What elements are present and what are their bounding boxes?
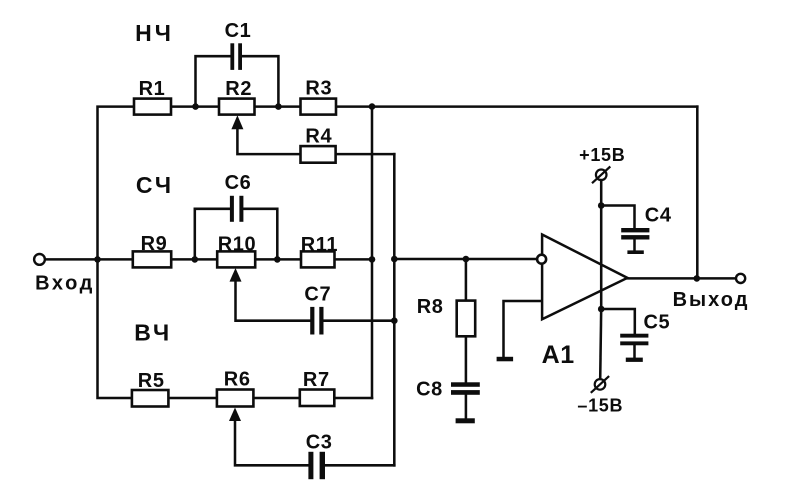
svg-text:Выход: Выход — [673, 289, 750, 311]
wire bus to R9 — [98, 258, 133, 261]
wiper arrow of R2 — [231, 115, 243, 129]
svg-text:НЧ: НЧ — [135, 20, 174, 46]
capacitor C1 — [230, 43, 234, 70]
capacitor C6 — [230, 196, 234, 222]
capacitor C4 — [621, 228, 649, 232]
ground of C5 — [626, 358, 643, 362]
wire inverting bus to op-amp — [394, 258, 536, 261]
svg-text:C7: C7 — [304, 284, 331, 306]
wire +15V terminal stem — [600, 180, 603, 205]
wire C3 to inverting bus — [325, 464, 394, 467]
junction node R1-C1 — [192, 103, 199, 110]
svg-text:ВЧ: ВЧ — [134, 320, 172, 346]
resistor R8 — [457, 301, 476, 337]
wire R10 to R11 — [255, 258, 301, 261]
junction node input bus — [94, 256, 101, 263]
resistor R9 — [133, 251, 171, 267]
wire power rail through op-amp — [600, 206, 603, 310]
wire C4 ground stub — [633, 239, 636, 250]
capacitor C8 — [451, 382, 480, 387]
wire C4 branch — [601, 206, 634, 229]
resistor R1 — [134, 99, 171, 115]
wire R1 to R2 — [171, 105, 219, 108]
wire R3 to feedback corner — [336, 105, 697, 108]
resistor R11 — [301, 251, 335, 267]
svg-text:C1: C1 — [225, 20, 252, 42]
resistor R6 (potentiometer body) — [217, 390, 254, 407]
svg-text:A1: A1 — [542, 341, 575, 369]
junction node -15V rail C5 — [598, 306, 605, 313]
wire op-amp output — [627, 277, 736, 280]
svg-text:R2: R2 — [225, 78, 252, 100]
op-amp U1 triangle — [542, 235, 627, 320]
wire R11 to output bus — [335, 258, 373, 261]
wire inverting bus vertical — [393, 154, 396, 465]
svg-text:R8: R8 — [417, 296, 444, 318]
wiper arrow of R10 — [230, 268, 242, 282]
junction node C6-R11 — [274, 256, 281, 263]
input terminal circle — [34, 254, 45, 265]
wire R9 to R10 — [171, 258, 217, 261]
wire non-inverting input to ground — [504, 301, 543, 357]
junction node C1-R3 — [275, 103, 282, 110]
svg-text:СЧ: СЧ — [136, 172, 174, 198]
svg-text:R1: R1 — [139, 78, 166, 100]
output terminal circle — [736, 274, 745, 283]
capacitor C3 — [308, 452, 313, 479]
svg-text:C8: C8 — [416, 378, 443, 400]
capacitor C7 — [310, 307, 314, 335]
wire R2 to R3 — [255, 105, 301, 108]
junction node +15V rail C4 — [598, 202, 605, 209]
junction node output feedback — [694, 275, 701, 282]
inverting input circle of op-amp — [537, 255, 546, 264]
svg-text:R3: R3 — [305, 77, 332, 99]
resistor R4 — [301, 146, 336, 163]
wire C8 to ground — [465, 395, 468, 419]
wire R5 to R6 — [168, 397, 217, 400]
junction node R9-C6 — [192, 256, 199, 263]
wire power rail to -15V — [600, 309, 601, 379]
svg-text:+15В: +15В — [579, 145, 625, 165]
svg-text:R6: R6 — [224, 369, 251, 391]
wire C7 to inverting bus — [324, 319, 395, 322]
resistor R5 — [132, 390, 169, 407]
svg-text:R11: R11 — [301, 234, 338, 256]
wire R7 to output bus — [334, 397, 372, 400]
junction node R8 tap — [463, 256, 470, 263]
svg-text:R10: R10 — [218, 234, 257, 256]
resistor R7 — [300, 390, 335, 407]
wire C6 loop — [195, 209, 230, 260]
ground of non-inverting input — [497, 357, 513, 362]
resistor R10 (potentiometer body) — [217, 251, 255, 267]
+15V terminal — [592, 167, 610, 184]
wire R6 wiper to C3 — [235, 420, 308, 465]
ground of C8 — [456, 418, 475, 423]
svg-text:Вход: Вход — [35, 273, 95, 295]
junction node inverting bus mid — [391, 256, 398, 263]
wire R8 branch down — [465, 259, 468, 301]
junction node R11-output bus — [369, 256, 376, 263]
svg-text:C5: C5 — [644, 312, 671, 334]
ground of C4 — [627, 250, 643, 254]
wire R2 wiper to R4 — [237, 128, 300, 154]
resistor R3 — [301, 99, 337, 115]
wire R10 wiper to C7 — [236, 280, 311, 321]
-15V terminal — [591, 376, 609, 393]
junction node C7-inverting bus — [391, 317, 398, 324]
wire feedback drop to output — [696, 107, 699, 279]
wire input to left bus — [45, 258, 98, 261]
wire output bus vertical — [371, 107, 374, 398]
wire C1 loop — [196, 56, 231, 106]
wire R4 to inverting bus — [336, 153, 395, 156]
wire R6 to R7 — [253, 397, 299, 400]
wire R8 to C8 — [465, 336, 468, 382]
svg-text:R4: R4 — [305, 126, 332, 148]
wire C5 branch — [601, 309, 635, 334]
wiper arrow of R6 — [229, 408, 241, 422]
junction node top feedback — [369, 103, 376, 110]
svg-text:C6: C6 — [225, 172, 252, 194]
capacitor C5 — [620, 334, 648, 338]
svg-text:R7: R7 — [303, 369, 330, 391]
svg-text:–15В: –15В — [577, 396, 623, 416]
wire left input bus vertical — [98, 107, 135, 398]
wire C5 ground stub — [633, 345, 636, 357]
svg-text:R9: R9 — [141, 233, 168, 255]
svg-text:R5: R5 — [138, 370, 165, 392]
resistor R2 (potentiometer body) — [219, 99, 255, 115]
svg-text:C4: C4 — [645, 205, 672, 227]
svg-text:C3: C3 — [306, 431, 333, 453]
